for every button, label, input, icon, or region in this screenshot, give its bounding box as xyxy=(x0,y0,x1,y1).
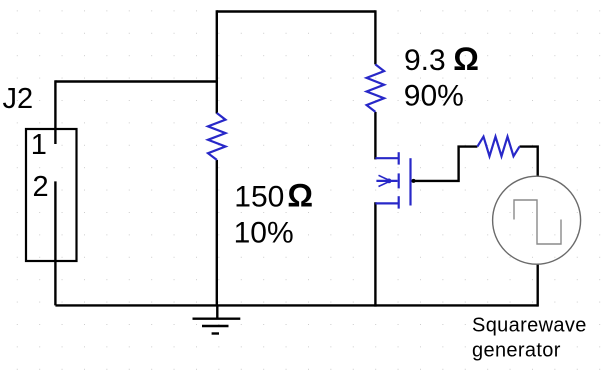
wire R1 to bottom rail xyxy=(216,160,218,306)
resistor R3 series gate resistor zigzag xyxy=(477,137,519,157)
wire generator to bottom rail xyxy=(537,264,539,307)
svg-text:Squarewave: Squarewave xyxy=(472,315,587,337)
wire top rail xyxy=(217,10,376,12)
body bar xyxy=(398,173,400,188)
connector J2 body xyxy=(26,129,77,261)
body arrow xyxy=(376,180,397,182)
wire right branch vertical (top rail to R2) xyxy=(374,10,376,64)
ground xyxy=(193,305,241,333)
drain bar xyxy=(398,152,400,164)
svg-text:Ω: Ω xyxy=(453,41,479,77)
wire series resistor to generator xyxy=(520,147,538,177)
svg-text:9.3: 9.3 xyxy=(404,44,446,77)
wire MOSFET source to bottom rail xyxy=(374,202,376,306)
wire gate to series resistor xyxy=(412,147,478,181)
squarewave symbol xyxy=(514,200,561,244)
junction dot at gate xyxy=(412,179,416,183)
wire left branch vertical (top rail to R1) xyxy=(216,10,218,113)
svg-text:2: 2 xyxy=(33,171,49,203)
wire J2 horizontal xyxy=(55,80,218,82)
svg-text:1: 1 xyxy=(31,129,47,161)
source lead xyxy=(375,202,398,204)
transistor Q1 MOSFET xyxy=(375,152,410,208)
resistor R2 9.3 Ohm zigzag xyxy=(367,64,385,112)
svg-text:90%: 90% xyxy=(404,80,464,113)
wire bottom rail xyxy=(55,304,537,306)
svg-text:10%: 10% xyxy=(234,216,294,249)
wire J2 pin2 to bottom rail xyxy=(54,181,56,305)
svg-text:Ω: Ω xyxy=(287,177,313,213)
source bar xyxy=(398,196,400,208)
svg-text:generator: generator xyxy=(472,340,561,362)
svg-text:J2: J2 xyxy=(3,83,34,115)
drain lead xyxy=(375,157,398,159)
resistor R1 150 Ohm zigzag xyxy=(208,113,226,160)
wire R2 to MOSFET drain xyxy=(374,112,376,159)
gate bar xyxy=(409,158,411,205)
svg-text:150: 150 xyxy=(234,180,284,213)
squarewave generator V1 circle xyxy=(493,176,581,264)
wire J2 pin1 stub xyxy=(54,80,56,144)
